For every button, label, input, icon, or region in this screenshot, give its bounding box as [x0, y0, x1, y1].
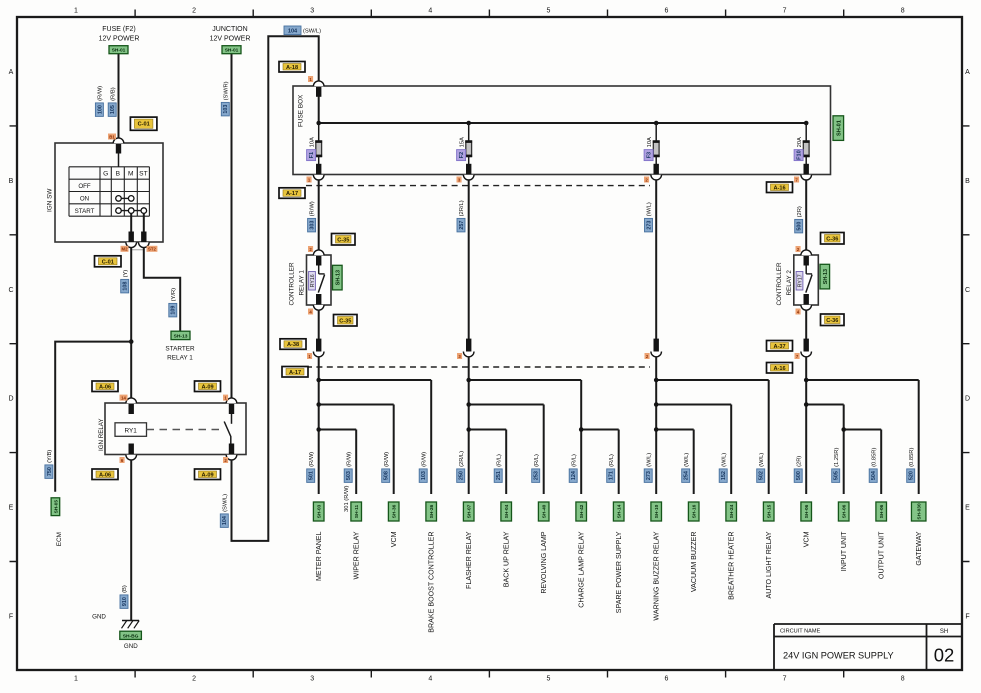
wire label 171 (R/L)	[607, 454, 615, 482]
sheet ref SH-07	[463, 502, 474, 521]
sheet ref SH-24	[726, 502, 737, 521]
svg-text:124: 124	[571, 471, 577, 480]
wire: fuse F3 feed down	[655, 180, 657, 351]
distribution bus wires	[319, 357, 919, 494]
svg-text:100: 100	[97, 105, 103, 114]
svg-text:5: 5	[546, 8, 550, 15]
svg-text:SH-13: SH-13	[335, 270, 341, 285]
IGN SW contact table	[69, 167, 149, 216]
fuse F2 label	[457, 137, 466, 161]
sheet ref SH-26	[426, 502, 437, 521]
svg-text:(Y): (Y)	[123, 270, 129, 278]
svg-text:C: C	[8, 287, 13, 294]
svg-text:AUTO LIGHT RELAY: AUTO LIGHT RELAY	[765, 531, 773, 598]
svg-text:251: 251	[496, 471, 502, 480]
bus junction dot at F1	[316, 121, 321, 126]
svg-text:171: 171	[609, 471, 615, 480]
svg-text:(R/W): (R/W)	[98, 86, 104, 101]
wire label 257 (2R/L)	[457, 200, 465, 232]
svg-text:(Y/B): (Y/B)	[47, 450, 53, 463]
svg-text:6: 6	[665, 676, 669, 683]
svg-text:4: 4	[428, 8, 432, 15]
svg-text:7: 7	[783, 8, 787, 15]
svg-text:BREATHER HEATER: BREATHER HEATER	[728, 532, 736, 600]
START row contact link	[116, 208, 147, 214]
sheet ref SH-10	[651, 502, 662, 521]
svg-text:(SW/L): (SW/L)	[303, 29, 321, 35]
svg-text:F10: F10	[797, 150, 803, 160]
svg-text:1: 1	[74, 8, 78, 15]
relay RY17 designator	[796, 272, 804, 291]
connector A-16 label (lower)	[767, 363, 793, 374]
svg-text:500: 500	[797, 222, 803, 231]
sheet ref SH-03	[313, 502, 324, 521]
svg-text:(0.85R): (0.85R)	[909, 448, 915, 467]
svg-text:505: 505	[834, 471, 840, 480]
svg-text:SH-16: SH-16	[692, 504, 698, 518]
svg-text:SH-24: SH-24	[729, 504, 735, 518]
svg-text:20A: 20A	[797, 137, 803, 147]
fuse F2 15A	[463, 121, 474, 180]
svg-text:503: 503	[346, 471, 352, 480]
svg-text:SH-01: SH-01	[112, 48, 126, 54]
svg-text:A-18: A-18	[286, 65, 298, 71]
svg-text:4: 4	[428, 676, 432, 683]
svg-text:(W/L): (W/L)	[759, 453, 765, 467]
wire: IGN SW terminal M output	[130, 213, 132, 232]
sheet ref SH-36	[388, 502, 399, 521]
pin number 3	[457, 177, 462, 183]
wire label 254 (W/L)	[682, 453, 690, 483]
relay RY1 switch blade	[231, 414, 233, 424]
svg-text:OUTPUT UNIT: OUTPUT UNIT	[878, 531, 886, 579]
connector A-09 label (bottom)	[195, 469, 221, 480]
svg-text:2: 2	[192, 676, 196, 683]
svg-text:250: 250	[459, 471, 465, 480]
svg-text:VACUUM BUZZER: VACUUM BUZZER	[690, 532, 698, 593]
wire label 508 (R/W)	[382, 452, 390, 483]
svg-text:105: 105	[110, 105, 116, 114]
svg-text:BACK UP RELAY: BACK UP RELAY	[503, 531, 511, 587]
svg-text:RELAY 1: RELAY 1	[167, 355, 193, 362]
connector A-17 dashed line (lower)	[306, 366, 650, 368]
svg-text:A: A	[965, 69, 970, 76]
svg-text:E: E	[965, 505, 970, 512]
svg-text:CIRCUIT NAME: CIRCUIT NAME	[780, 629, 821, 635]
wire label 108 (Y)	[121, 270, 129, 293]
svg-text:500: 500	[796, 471, 802, 480]
wire label 124 (R/L)	[569, 454, 577, 482]
svg-text:SH-13: SH-13	[174, 333, 188, 339]
svg-text:ECM: ECM	[56, 532, 63, 546]
svg-text:B: B	[965, 178, 970, 185]
fuse F1 10A	[313, 123, 324, 180]
connector A-17 dashed line (upper)	[306, 185, 650, 187]
ignition switch IGN SW box	[55, 143, 163, 242]
wire: fuse F1 to controller relay 1	[318, 180, 320, 250]
connector IC-35 label (upper)	[332, 234, 356, 246]
svg-text:104: 104	[288, 28, 298, 34]
svg-text:C-35: C-35	[339, 318, 351, 324]
ground symbol	[122, 621, 140, 629]
svg-text:(R/L): (R/L)	[496, 454, 502, 467]
svg-text:START: START	[75, 208, 95, 215]
connector pin on F2 wire	[466, 339, 471, 352]
svg-text:SH-36: SH-36	[392, 504, 398, 518]
svg-text:(R/W): (R/W)	[309, 452, 315, 467]
RY1 contact side pins	[226, 398, 237, 403]
svg-text:254: 254	[684, 471, 690, 480]
wire label 103 (SW/R)	[221, 81, 229, 116]
svg-text:F: F	[9, 614, 13, 621]
svg-text:10A: 10A	[647, 137, 653, 147]
svg-text:SH-030: SH-030	[917, 503, 923, 520]
svg-text:SH-14: SH-14	[617, 504, 623, 518]
svg-text:301 (R/W): 301 (R/W)	[344, 486, 350, 512]
svg-text:SH-26: SH-26	[429, 504, 435, 518]
sheet ref SH-01 on fuse box	[833, 116, 844, 141]
svg-text:INPUT UNIT: INPUT UNIT	[840, 531, 848, 571]
svg-text:ST2: ST2	[148, 247, 156, 252]
svg-text:(R/W): (R/W)	[310, 201, 316, 216]
sheet ref SH-01 (fuse source)	[109, 46, 128, 54]
fuse F3 10A	[651, 121, 662, 180]
svg-text:SH-BG: SH-BG	[123, 633, 139, 639]
connector A-38 label	[280, 339, 306, 350]
wire: fuse source to IGN SW terminal B	[118, 54, 120, 139]
svg-text:A-06: A-06	[99, 472, 111, 478]
fuse box outline	[293, 86, 831, 175]
svg-text:SH-05: SH-05	[53, 500, 58, 514]
svg-text:A-06: A-06	[99, 384, 111, 390]
connector A-09 label (top)	[195, 381, 221, 392]
sheet ref SH-13 on RY17	[820, 264, 830, 289]
svg-text:SH: SH	[940, 629, 948, 635]
wire: fuse F2 feed down	[468, 180, 470, 351]
wire: branch to ECM	[55, 342, 131, 492]
ON row contact link	[116, 196, 134, 202]
connector IC-35 label (lower)	[334, 315, 358, 327]
fuse box entry pin	[313, 81, 324, 86]
wire: junction source down to IGN relay contact	[231, 54, 233, 398]
sheet ref SH-42	[576, 502, 587, 521]
svg-text:750: 750	[47, 467, 53, 476]
wire label 105 (R/B)	[108, 87, 116, 116]
pin number 7	[794, 177, 799, 183]
wire label 910 (B)	[120, 585, 128, 608]
svg-text:(W/L): (W/L)	[721, 453, 727, 467]
wire label 505 (1.25R)	[832, 448, 840, 483]
connector A-17 label (upper)	[279, 188, 305, 199]
distribution junction dots	[316, 378, 846, 432]
sheet ref SH-030	[911, 502, 926, 521]
wire: entry to bus	[318, 97, 320, 124]
wire from terminal B into table	[118, 153, 120, 167]
wire label 251 (R/L)	[494, 454, 502, 482]
wire label 501 (R/W)	[307, 452, 315, 483]
svg-text:A-38: A-38	[287, 342, 299, 348]
sheet ref SH-06	[801, 502, 812, 521]
svg-text:C-01: C-01	[102, 259, 114, 265]
svg-text:SH-01: SH-01	[225, 48, 239, 54]
wire: RY16 to connector A-38	[318, 310, 320, 351]
svg-text:SH-13: SH-13	[823, 269, 829, 284]
pin number 2	[644, 177, 649, 183]
svg-text:SPARE POWER SUPPLY: SPARE POWER SUPPLY	[615, 531, 623, 613]
title block	[774, 624, 962, 670]
wire label 500 (2R)	[795, 206, 803, 233]
svg-text:(2R): (2R)	[797, 206, 803, 217]
svg-text:B: B	[9, 178, 14, 185]
sheet ref SH-13 on RY16	[333, 265, 343, 290]
svg-text:CONTROLLER: CONTROLLER	[776, 262, 783, 305]
wire: RY17 to connector A-37	[805, 310, 807, 351]
svg-text:SH-07: SH-07	[467, 504, 473, 518]
svg-text:SH-42: SH-42	[579, 504, 585, 518]
sheet ref SH-15	[763, 502, 774, 521]
wire: IGN SW terminal ST output	[143, 213, 145, 232]
svg-text:C-35: C-35	[337, 237, 349, 243]
relay RY17 controller relay 2	[794, 250, 819, 310]
svg-text:(SW/R): (SW/R)	[223, 81, 229, 100]
svg-text:IGN RELAY: IGN RELAY	[98, 418, 105, 451]
connector A-06 label (bottom)	[92, 469, 118, 480]
svg-text:12V POWER: 12V POWER	[99, 35, 140, 42]
svg-text:508: 508	[384, 471, 390, 480]
svg-text:GATEWAY: GATEWAY	[915, 531, 923, 565]
svg-text:A-37: A-37	[773, 344, 785, 350]
svg-text:1: 1	[74, 676, 78, 683]
wire label 273 (W/L)	[644, 453, 652, 483]
svg-text:RY16: RY16	[310, 274, 316, 287]
svg-text:(R/L): (R/L)	[571, 454, 577, 467]
svg-text:D: D	[965, 396, 970, 403]
wire label 250 (2R/L)	[457, 451, 465, 483]
svg-text:7: 7	[783, 676, 787, 683]
wire label 502 (W/L)	[757, 453, 765, 483]
svg-text:ST: ST	[139, 171, 147, 178]
svg-text:(R/L): (R/L)	[609, 454, 615, 467]
svg-text:C-36: C-36	[826, 236, 838, 242]
svg-text:STARTER: STARTER	[165, 346, 195, 353]
wire: relay coil to ground	[130, 460, 132, 621]
svg-text:108: 108	[123, 282, 129, 291]
connector C-01 label	[130, 117, 157, 130]
svg-text:RY17: RY17	[798, 274, 804, 287]
svg-text:SH-06: SH-06	[804, 504, 810, 518]
svg-text:8: 8	[901, 8, 905, 15]
svg-text:14: 14	[121, 396, 126, 401]
svg-text:RY1: RY1	[125, 427, 138, 434]
svg-text:C: C	[965, 287, 970, 294]
relay RY16 designator	[309, 272, 317, 291]
fuse F1 label	[307, 137, 316, 161]
svg-text:RELAY 1: RELAY 1	[298, 270, 305, 296]
svg-text:A-09: A-09	[201, 384, 213, 390]
svg-text:WARNING BUZZER RELAY: WARNING BUZZER RELAY	[653, 531, 661, 620]
svg-text:GND: GND	[92, 614, 106, 621]
sheet ref SH-06	[876, 502, 887, 521]
svg-text:(Y/R): (Y/R)	[171, 288, 177, 302]
connector pin on F3 wire	[654, 339, 659, 352]
pin number 1	[307, 177, 312, 183]
wire: fuse F10 to controller relay 2	[805, 180, 807, 250]
svg-text:METER PANEL: METER PANEL	[315, 531, 323, 581]
sheet ref SH-05 (ECM)	[51, 498, 60, 516]
node junction to ECM branch	[129, 339, 134, 344]
sheet ref SH-14	[613, 502, 624, 521]
svg-text:FLASHER RELAY: FLASHER RELAY	[465, 531, 473, 589]
svg-text:M: M	[128, 171, 134, 178]
svg-text:(R/B): (R/B)	[110, 87, 116, 101]
wire label 750 (Y/B)	[45, 450, 53, 479]
relay RY1 designator box	[115, 423, 147, 437]
wire label 303 (R/W)	[308, 201, 316, 232]
svg-text:A-16: A-16	[773, 185, 785, 191]
svg-text:B: B	[116, 171, 121, 178]
svg-text:(2R/L): (2R/L)	[459, 451, 465, 467]
svg-text:OFF: OFF	[78, 183, 91, 190]
svg-text:(R/W): (R/W)	[421, 452, 427, 467]
svg-text:910: 910	[122, 597, 128, 606]
fuse F3 label	[644, 137, 653, 161]
connector A-18 label	[279, 62, 305, 73]
svg-text:8: 8	[901, 676, 905, 683]
svg-text:(SW/L): (SW/L)	[222, 494, 228, 512]
svg-text:(W/L): (W/L)	[684, 453, 690, 467]
wire label 273 (W/L)	[645, 202, 653, 232]
node: FUSE (F2) 12V POWER source	[99, 26, 140, 42]
connector A-06 label (top)	[92, 381, 118, 392]
svg-text:E: E	[9, 505, 14, 512]
connector IC-36 label (upper)	[821, 233, 845, 245]
svg-text:3: 3	[310, 676, 314, 683]
svg-text:IGN SW: IGN SW	[47, 188, 54, 212]
connector pin into IGN SW	[113, 138, 124, 143]
svg-text:SH-03: SH-03	[317, 504, 323, 518]
svg-text:257: 257	[459, 221, 465, 230]
RY1 coil side pins	[126, 398, 137, 403]
svg-text:2: 2	[192, 8, 196, 15]
connector A-17 label (lower)	[282, 367, 308, 378]
svg-text:CHARGE LAMP RELAY: CHARGE LAMP RELAY	[578, 531, 586, 607]
wire label 104 (SW/L) vertical	[220, 494, 228, 528]
wire: IGN SW M output down to IGN relay coil	[130, 248, 132, 399]
svg-text:(W/L): (W/L)	[647, 202, 653, 216]
svg-text:15A: 15A	[459, 137, 465, 147]
svg-text:F1: F1	[309, 152, 315, 159]
svg-text:RELAY 2: RELAY 2	[786, 270, 793, 296]
svg-text:104: 104	[222, 516, 228, 525]
svg-text:SH-04: SH-04	[504, 504, 510, 518]
node: STARTER RELAY 1	[165, 346, 195, 362]
svg-text:SH-01: SH-01	[836, 120, 842, 136]
svg-text:3: 3	[310, 8, 314, 15]
svg-text:A-09: A-09	[201, 472, 213, 478]
connector A-16 label (upper)	[767, 182, 793, 193]
svg-text:C-36: C-36	[826, 318, 838, 324]
svg-text:504: 504	[871, 471, 877, 480]
svg-text:JUNCTION: JUNCTION	[212, 26, 247, 33]
svg-text:FUSE (F2): FUSE (F2)	[102, 26, 135, 33]
sheet ref SH-06	[838, 502, 849, 521]
sheet ref SH-11	[351, 502, 362, 521]
wire label 104 (SW/L) horizontal	[284, 26, 321, 35]
svg-text:A-16: A-16	[773, 366, 785, 372]
svg-text:B1: B1	[109, 134, 115, 139]
svg-text:12V POWER: 12V POWER	[210, 35, 251, 42]
wire: ST output to STARTER RELAY 1	[144, 248, 180, 332]
fuse F10 label	[794, 137, 803, 161]
svg-text:GND: GND	[124, 643, 138, 650]
svg-text:(R/W): (R/W)	[346, 452, 352, 467]
svg-text:REVOLVING LAMP: REVOLVING LAMP	[540, 531, 548, 593]
sheet ref SH-16	[688, 502, 699, 521]
wire label 504 (0.85R)	[869, 448, 877, 483]
wire label 100 (R/W)	[95, 86, 103, 117]
connector A-37 label	[767, 341, 793, 352]
svg-text:(0.85R): (0.85R)	[871, 448, 877, 467]
connector C-01 label (below IGN SW)	[95, 256, 122, 267]
sheet ref SH-40	[538, 502, 549, 521]
wire label 503 (R/W)	[344, 452, 352, 483]
sheet ref SH-BG ground	[120, 631, 142, 639]
svg-text:(1.25R): (1.25R)	[834, 448, 840, 467]
fuse F10 20A	[801, 121, 812, 180]
svg-text:WIPER RELAY: WIPER RELAY	[353, 531, 361, 579]
svg-text:109: 109	[171, 306, 177, 315]
svg-text:(2R): (2R)	[796, 456, 802, 467]
svg-text:24V IGN POWER SUPPLY: 24V IGN POWER SUPPLY	[783, 651, 894, 661]
svg-text:(R/W): (R/W)	[384, 452, 390, 467]
svg-text:A-17: A-17	[286, 191, 298, 197]
sheet ref SH-04	[501, 502, 512, 521]
wire label 152 (W/L)	[719, 453, 727, 483]
svg-text:520: 520	[909, 471, 915, 480]
svg-text:5: 5	[546, 676, 550, 683]
svg-text:A: A	[9, 69, 14, 76]
svg-text:F3: F3	[647, 152, 653, 159]
wire label 253 (R/L)	[532, 454, 540, 482]
svg-text:A-17: A-17	[289, 370, 301, 376]
svg-text:103: 103	[223, 105, 229, 114]
relay RY16 controller relay 1	[307, 250, 332, 310]
svg-text:253: 253	[534, 471, 540, 480]
wire label 520 (0.85R)	[907, 448, 915, 483]
svg-text:CONTROLLER: CONTROLLER	[289, 262, 296, 305]
svg-text:6: 6	[665, 8, 669, 15]
svg-text:M2: M2	[122, 247, 129, 252]
svg-text:10A: 10A	[309, 137, 315, 147]
svg-text:VCM: VCM	[803, 531, 811, 547]
fuse box bus bar	[319, 122, 807, 124]
svg-text:VCM: VCM	[390, 531, 398, 547]
svg-text:SH-10: SH-10	[654, 504, 660, 518]
svg-text:F: F	[965, 614, 969, 621]
svg-text:D: D	[8, 396, 13, 403]
wire: IGN relay output loop up to fuse box feed	[232, 36, 319, 541]
svg-text:SH-06: SH-06	[879, 504, 885, 518]
svg-text:SH-06: SH-06	[842, 504, 848, 518]
svg-text:273: 273	[646, 221, 652, 230]
svg-text:C-01: C-01	[138, 122, 150, 128]
svg-text:501: 501	[309, 471, 315, 480]
svg-text:SH-15: SH-15	[767, 504, 773, 518]
svg-text:152: 152	[721, 471, 727, 480]
connector IC-36 label (lower)	[821, 314, 845, 326]
svg-text:SH-40: SH-40	[542, 504, 548, 518]
svg-text:02: 02	[934, 645, 955, 666]
